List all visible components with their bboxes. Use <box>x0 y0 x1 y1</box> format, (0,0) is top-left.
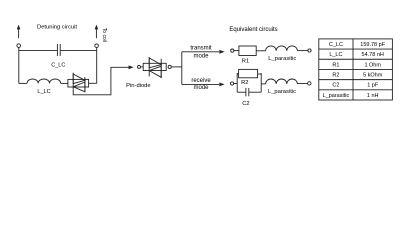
svg-text:5 kOhm: 5 kOhm <box>363 73 383 79</box>
label receive mode <box>191 78 211 91</box>
pin-diode terminal right <box>168 65 171 68</box>
transmit terminal left <box>231 49 234 52</box>
diode package box (in loop) <box>68 79 89 87</box>
svg-text:receive: receive <box>191 78 211 84</box>
capacitor C2 <box>246 88 249 96</box>
svg-text:mode: mode <box>193 54 209 60</box>
svg-text:To coil: To coil <box>101 28 107 42</box>
svg-text:54.78 nH: 54.78 nH <box>362 52 384 58</box>
svg-text:R2: R2 <box>241 80 248 86</box>
inductor L_parasitic (transmit) <box>266 46 298 51</box>
stub to R2 left <box>237 73 238 75</box>
receive arrow <box>182 83 225 87</box>
pin-diode terminal left <box>138 65 141 68</box>
parallel left vertical <box>236 73 238 92</box>
svg-text:1 nH: 1 nH <box>367 93 379 99</box>
svg-text:R1: R1 <box>242 59 249 65</box>
wire R1 to inductor <box>256 50 265 52</box>
wire to R1 <box>234 50 239 52</box>
svg-text:R1: R1 <box>332 62 339 68</box>
crossed diode pair (in loop) <box>73 73 85 94</box>
terminal arrow right <box>95 25 99 39</box>
svg-text:C_LC: C_LC <box>51 62 65 68</box>
inductor L_LC <box>27 79 61 83</box>
terminal arrow left <box>17 25 21 39</box>
resistor R2 <box>239 69 258 77</box>
svg-text:L_parasitic: L_parasitic <box>323 93 350 99</box>
wire inductor to terminal <box>297 50 308 52</box>
pin-diode package box <box>143 63 166 70</box>
wire C2 to right vertical <box>249 91 261 93</box>
tap wire to pin-diode callout <box>73 65 133 94</box>
receive terminal left <box>231 82 234 85</box>
node terminal left <box>17 44 21 48</box>
wire left vertical <box>18 48 20 84</box>
svg-text:1 pF: 1 pF <box>367 83 379 89</box>
receive terminal right <box>308 82 311 85</box>
transmit arrow <box>182 50 225 54</box>
svg-text:R2: R2 <box>332 73 339 79</box>
wire parallel to inductor <box>261 83 265 85</box>
wire top right segment <box>60 49 96 51</box>
branch vertical wire <box>181 52 183 85</box>
wire to pin-diode package <box>141 66 144 68</box>
wire inductor to diode box <box>61 82 68 84</box>
svg-text:C2: C2 <box>242 101 249 107</box>
wire to R2 parallel <box>234 83 238 85</box>
svg-text:159.78 pF: 159.78 pF <box>360 42 385 48</box>
svg-text:1 Ohm: 1 Ohm <box>364 62 381 68</box>
resistor R1 <box>239 46 256 56</box>
svg-text:transmit: transmit <box>190 46 212 52</box>
parallel right vertical <box>260 73 262 92</box>
svg-text:L_LC: L_LC <box>329 52 342 58</box>
wire to C2 <box>237 91 246 93</box>
node terminal right <box>95 44 99 48</box>
wire top left segment <box>19 49 58 51</box>
svg-text:Pin-diode: Pin-diode <box>126 83 151 89</box>
component value table <box>319 39 393 100</box>
wire bottom left stub <box>19 82 27 84</box>
pin-diode crossed diodes <box>149 57 161 78</box>
wire pin-diode to branch <box>171 66 182 68</box>
label transmit mode <box>190 46 212 60</box>
transmit terminal right <box>308 49 311 52</box>
capacitor C_LC <box>57 44 60 56</box>
wire right vertical <box>96 48 98 84</box>
stub R2 right <box>258 73 262 75</box>
inductor L_parasitic (receive) <box>266 79 298 84</box>
wire inductor to terminal (receive) <box>297 83 307 85</box>
svg-text:C_LC: C_LC <box>329 42 343 48</box>
svg-text:L_LC: L_LC <box>37 89 50 95</box>
svg-text:C2: C2 <box>332 83 339 89</box>
svg-text:Detuning circuit: Detuning circuit <box>37 25 77 31</box>
wire diode box to right vertical <box>89 82 97 84</box>
table text <box>323 42 386 99</box>
svg-text:L_parasitic: L_parasitic <box>268 56 296 62</box>
svg-text:Equivalent circuits: Equivalent circuits <box>229 27 277 33</box>
svg-text:mode: mode <box>193 85 209 91</box>
svg-text:L_parasitic: L_parasitic <box>268 89 296 95</box>
